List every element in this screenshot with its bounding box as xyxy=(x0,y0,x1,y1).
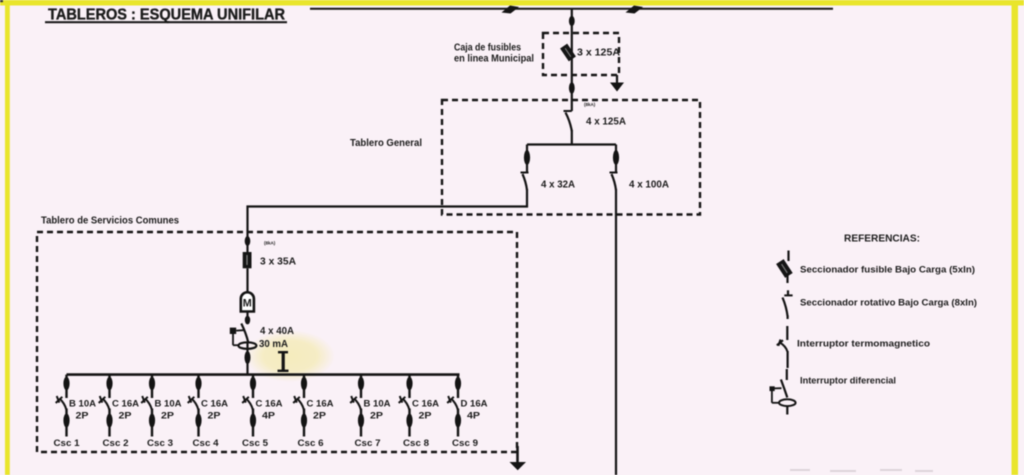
seccionador 4x125A xyxy=(564,111,572,145)
ramal Csc 7: wire xyxy=(360,375,362,398)
svg-text:Tablero de Servicios Comunes: Tablero de Servicios Comunes xyxy=(41,216,179,227)
ramal Csc 5: wire xyxy=(252,375,254,398)
wire: enlace hacia tablero servicios xyxy=(247,206,529,254)
highlight glow around 30 mA xyxy=(245,330,335,382)
svg-text:REFERENCIAS:: REFERENCIAS: xyxy=(844,233,920,245)
junction rama derecha xyxy=(613,150,619,165)
interruptor diferencial 4x40A xyxy=(230,324,257,376)
ramal Csc 9: wire xyxy=(457,375,459,398)
svg-text:Seccionador fusible Bajo Carga: Seccionador fusible Bajo Carga (5xIn) xyxy=(800,265,975,276)
ramal Csc 1: interruptor termomagnetico B 10A 2P xyxy=(56,396,67,410)
junction dot bajo caja xyxy=(569,82,575,94)
svg-text:D 16A: D 16A xyxy=(461,399,489,409)
tablero de servicios comunes recuadro xyxy=(37,232,517,452)
ramal Csc 9: junction inferior xyxy=(455,414,461,428)
ramal Csc 2: junction superior xyxy=(106,377,112,391)
ramal Csc 4: wire xyxy=(197,375,199,398)
wire: rama derecha xyxy=(615,145,617,173)
ramal Csc 3: wire xyxy=(151,375,153,398)
svg-text:(8kA): (8kA) xyxy=(584,102,596,107)
ramal Csc 4: interruptor termomagnetico C 16A 2P xyxy=(188,396,199,410)
svg-text:Csc 3: Csc 3 xyxy=(147,438,173,448)
ramal Csc 1: wire xyxy=(65,375,67,398)
svg-text:C 16A: C 16A xyxy=(256,399,284,409)
junction entrada servicios xyxy=(245,236,251,246)
ramal Csc 5: junction superior xyxy=(250,377,256,391)
svg-text:C 16A: C 16A xyxy=(201,399,229,409)
ramal Csc 2: interruptor termomagnetico C 16A 2P xyxy=(99,396,110,410)
svg-text:C 16A: C 16A xyxy=(112,399,140,409)
ramal Csc 2: junction inferior xyxy=(106,414,112,428)
caja de fusibles recuadro xyxy=(543,33,619,75)
ramal Csc 6: junction inferior xyxy=(301,414,307,428)
ramal Csc 4: junction inferior xyxy=(195,414,201,428)
fusible 3x35A xyxy=(243,252,252,268)
ramal Csc 2: wire xyxy=(108,375,110,398)
wire medidor a diferencial xyxy=(246,312,248,325)
svg-text:2P: 2P xyxy=(161,411,174,421)
junction dot superior xyxy=(569,16,575,26)
wire: linea municipal superior xyxy=(310,8,833,10)
title TABLEROS : ESQUEMA UNIFILAR xyxy=(45,7,287,24)
svg-text:B 10A: B 10A xyxy=(364,399,392,409)
wire fusible a medidor xyxy=(246,268,248,292)
ramal Csc 3: junction superior xyxy=(149,377,155,391)
ramal Csc 7: interruptor termomagnetico B 10A 2P xyxy=(350,396,361,410)
ramal Csc 1: junction superior xyxy=(63,377,69,391)
ramal Csc 5: junction inferior xyxy=(250,414,256,428)
ramal Csc 8: junction superior xyxy=(406,377,412,391)
svg-text:Csc 7: Csc 7 xyxy=(355,438,381,448)
wire: barra tablero general xyxy=(527,143,616,145)
svg-text:2P: 2P xyxy=(370,411,383,421)
flecha 2 sobre linea superior xyxy=(626,6,644,14)
svg-text:3 x 125A: 3 x 125A xyxy=(577,48,620,59)
junction bajo medidor xyxy=(245,316,250,325)
svg-text:4 x 40A: 4 x 40A xyxy=(260,326,294,337)
ramal Csc 8: interruptor termomagnetico C 16A 2P xyxy=(399,396,410,410)
junction rama izquierda xyxy=(524,150,530,165)
simbolo interruptor diferencial xyxy=(770,369,796,415)
svg-text:4 x 32A: 4 x 32A xyxy=(541,180,575,191)
svg-text:2P: 2P xyxy=(419,411,432,421)
svg-text:30 mA: 30 mA xyxy=(259,339,288,350)
fusible 3x125A xyxy=(560,44,576,62)
wire: rama izquierda xyxy=(526,145,528,173)
tablero general recuadro xyxy=(442,100,700,215)
wire: salida 4x100A hacia abajo xyxy=(615,189,617,475)
svg-text:Csc 6: Csc 6 xyxy=(298,438,324,448)
ramal Csc 6: junction superior xyxy=(301,377,307,391)
ramal Csc 6: interruptor termomagnetico C 16A 2P xyxy=(293,396,304,410)
svg-text:Csc 5: Csc 5 xyxy=(242,438,268,448)
flecha 1 sobre linea superior xyxy=(502,6,520,14)
wire: bajada principal a caja de fusibles xyxy=(571,9,573,111)
wire: barra colectora xyxy=(67,373,460,376)
svg-text:Tablero General: Tablero General xyxy=(350,138,422,149)
svg-text:3 x 35A: 3 x 35A xyxy=(260,257,296,268)
svg-text:C 16A: C 16A xyxy=(412,399,440,409)
svg-text:Interruptor termomagnetico: Interruptor termomagnetico xyxy=(797,339,930,350)
ramal Csc 9: junction superior xyxy=(455,377,461,391)
ramal Csc 9: interruptor termomagnetico D 16A 4P xyxy=(447,396,458,410)
svg-text:4P: 4P xyxy=(467,411,480,421)
svg-text:4 x 100A: 4 x 100A xyxy=(629,180,669,191)
ramal Csc 6: wire xyxy=(303,375,305,398)
svg-text:Csc 4: Csc 4 xyxy=(193,438,219,448)
seccionador 4x100A xyxy=(610,173,618,191)
ramal Csc 5: interruptor termomagnetico C 16A 4P xyxy=(242,396,253,410)
junction bajo diferencial xyxy=(245,351,251,364)
label caja de fusibles xyxy=(454,43,534,65)
svg-text:B 10A: B 10A xyxy=(155,399,183,409)
seccionador 4x32A xyxy=(521,173,529,208)
svg-text:2P: 2P xyxy=(208,411,221,421)
svg-text:(8kA): (8kA) xyxy=(264,241,276,246)
ramal Csc 7: junction superior xyxy=(358,377,364,391)
svg-text:2P: 2P xyxy=(313,411,326,421)
svg-text:TABLEROS : ESQUEMA UNIFILAR: TABLEROS : ESQUEMA UNIFILAR xyxy=(48,7,285,24)
ramal Csc 3: interruptor termomagnetico B 10A 2P xyxy=(141,396,152,410)
svg-text:2P: 2P xyxy=(76,411,89,421)
svg-text:C 16A: C 16A xyxy=(307,399,335,409)
simbolo seccionador fusible xyxy=(776,251,793,284)
cursor de texto xyxy=(278,351,289,372)
svg-text:Csc 2: Csc 2 xyxy=(103,438,129,448)
simbolo interruptor termomagnetico xyxy=(777,326,788,368)
restos tenues inferiores xyxy=(790,469,933,472)
svg-text:en linea Municipal: en linea Municipal xyxy=(454,54,534,65)
simbolo seccionador rotativo xyxy=(783,290,793,319)
svg-text:Seccionador rotativo Bajo Carg: Seccionador rotativo Bajo Carga (8xIn) xyxy=(800,298,977,309)
svg-text:Csc 8: Csc 8 xyxy=(403,438,429,448)
svg-text:Interruptor diferencial: Interruptor diferencial xyxy=(800,376,896,387)
ramal Csc 8: junction inferior xyxy=(406,414,412,428)
svg-text:2P: 2P xyxy=(119,411,132,421)
svg-text:Csc 1: Csc 1 xyxy=(54,438,80,448)
svg-text:4P: 4P xyxy=(262,411,275,421)
medidor M xyxy=(241,292,254,311)
svg-text:M: M xyxy=(243,298,252,310)
svg-text:Csc 9: Csc 9 xyxy=(452,438,478,448)
ramal Csc 7: junction inferior xyxy=(358,414,364,428)
wire con flecha bajo caja xyxy=(610,75,624,92)
ramal Csc 8: wire xyxy=(408,375,410,398)
ramal Csc 1: junction inferior xyxy=(63,414,69,428)
ramal Csc 3: junction inferior xyxy=(149,414,155,428)
ramal Csc 4: junction superior xyxy=(195,377,201,391)
wire con flecha salida inferior del recuadro xyxy=(510,446,527,470)
svg-text:B 10A: B 10A xyxy=(69,399,97,409)
svg-text:4 x 125A: 4 x 125A xyxy=(586,117,626,128)
svg-text:Caja de fusibles: Caja de fusibles xyxy=(454,43,521,54)
